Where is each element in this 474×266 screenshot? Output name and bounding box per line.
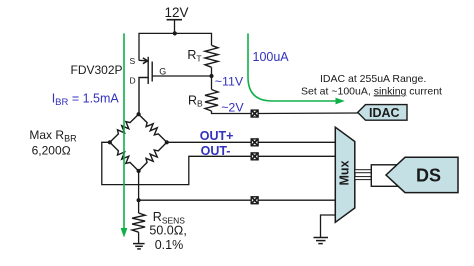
svg-text:IDAC: IDAC: [369, 106, 400, 120]
mux U2: [335, 127, 355, 222]
svg-text:OUT+: OUT+: [200, 129, 234, 143]
svg-text:100uA: 100uA: [253, 50, 290, 64]
resistor RB: [205, 90, 218, 112]
wire mux output stub 1: [355, 170, 372, 173]
junction dot 12V rail: [173, 31, 177, 35]
svg-text:Max RBR: Max RBR: [29, 128, 77, 144]
bridge resistor top-right: [139, 114, 167, 142]
wire OUT+: [167, 141, 251, 143]
bridge resistor bottom-left: [110, 142, 139, 171]
junction dot node 11V: [209, 74, 213, 78]
svg-text:D: D: [130, 76, 136, 86]
svg-text:50.0Ω,: 50.0Ω,: [149, 224, 186, 238]
wire mux output stub 2: [355, 177, 372, 180]
svg-text:RT: RT: [187, 48, 201, 63]
svg-text:IBR = 1.5mA: IBR = 1.5mA: [52, 91, 120, 108]
connector body (white): [371, 165, 406, 187]
svg-text:IDAC at 255uA Range.: IDAC at 255uA Range.: [320, 73, 426, 85]
svg-text:OUT-: OUT-: [201, 144, 231, 158]
bridge resistor bottom-right: [139, 142, 167, 171]
resistor RSENS: [132, 213, 145, 232]
svg-text:~11V: ~11V: [215, 74, 244, 88]
junction dot bridge bottom: [137, 169, 141, 173]
wire OUT+ to mux: [258, 141, 335, 143]
wire gate to node: [152, 75, 211, 77]
wire OUT- to mux: [258, 155, 335, 157]
wire mux to ground: [321, 215, 336, 237]
terminal X4: [251, 197, 258, 204]
current arrow IBR (green): [121, 33, 128, 237]
svg-text:RB: RB: [188, 93, 203, 108]
wire 12V stub: [174, 20, 176, 34]
wire RT to node: [211, 67, 213, 76]
wire OUT-: [102, 142, 251, 184]
bridge resistor top-left: [110, 114, 139, 142]
current arrow 100uA (green): [248, 33, 345, 104]
transistor Q1 FDV302P (P-MOSFET): [139, 57, 152, 114]
svg-text:Set at ~100uA, sinking current: Set at ~100uA, sinking current: [301, 85, 442, 97]
wire node to RB: [211, 76, 213, 90]
ground (below RSENS): [133, 244, 145, 249]
svg-text:FDV302P: FDV302P: [71, 63, 123, 77]
svg-text:G: G: [159, 66, 166, 76]
svg-text:DS: DS: [416, 166, 441, 186]
wire RSENS to ground: [138, 232, 140, 243]
svg-text:Mux: Mux: [338, 160, 352, 185]
resistor RT: [205, 45, 218, 67]
tag DS: [386, 157, 458, 192]
junction dot bridge top: [137, 112, 141, 116]
terminal X3: [251, 153, 258, 160]
svg-text:6,200Ω: 6,200Ω: [32, 144, 71, 158]
power bar 12V: [167, 19, 182, 21]
svg-text:S: S: [130, 56, 136, 66]
junction dot sense node: [137, 198, 141, 202]
tag IDAC: [358, 105, 407, 121]
svg-text:0.1%: 0.1%: [155, 238, 184, 252]
svg-text:~2V: ~2V: [221, 100, 244, 114]
terminal X2: [251, 139, 258, 146]
junction dot bridge right: [165, 140, 169, 144]
svg-text:12V: 12V: [165, 5, 189, 20]
wire sense to mux: [258, 199, 335, 201]
terminal X1: [251, 110, 258, 117]
wire terminal to IDAC: [258, 112, 358, 115]
wire top rail: [139, 33, 212, 60]
wire RB to terminal: [212, 111, 252, 114]
junction dot bridge left: [108, 140, 112, 144]
wire bridge bottom to sense node: [138, 171, 140, 213]
ground (below mux): [314, 238, 329, 244]
wire sense node to terminal: [139, 199, 251, 201]
